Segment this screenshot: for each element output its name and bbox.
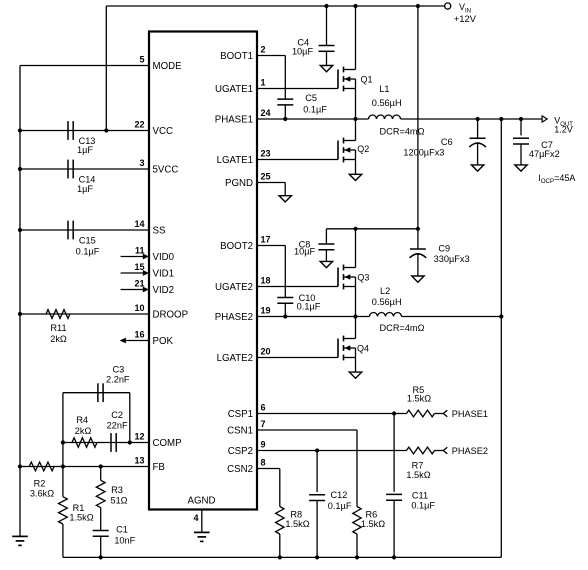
pin name SS: [153, 226, 166, 237]
node dot drain rail Q3: [353, 227, 357, 231]
controller IC U1 (24-pin PWM controller): [149, 32, 257, 510]
label C15 0.1uF: [76, 236, 100, 257]
svg-text:C15: C15: [79, 236, 96, 246]
pin name MODE: [153, 61, 183, 72]
pin number 3: [139, 158, 144, 168]
svg-text:R8: R8: [290, 510, 302, 520]
wire from top rail down to VCC row: [105, 6, 107, 131]
pin name VID0: [153, 252, 175, 263]
wire C12 branch: [316, 451, 318, 493]
svg-text:0.1µF: 0.1µF: [297, 301, 321, 311]
svg-text:2: 2: [261, 45, 266, 55]
wire CSN2 row to R8: [257, 469, 280, 507]
svg-text:LGATE1: LGATE1: [217, 155, 253, 166]
svg-text:PHASE2: PHASE2: [452, 446, 488, 456]
label C13 1uF: [77, 136, 95, 155]
capacitor C8: [318, 229, 334, 262]
svg-text:LGATE2: LGATE2: [217, 353, 253, 364]
wire 5VCC row: [20, 168, 149, 170]
wire C11 to bottom rail: [393, 500, 395, 557]
svg-text:23: 23: [261, 149, 271, 159]
ground C9: [412, 276, 424, 282]
resistor R1: [59, 497, 68, 524]
svg-text:0.1µF: 0.1µF: [303, 105, 327, 115]
svg-text:1.2V: 1.2V: [554, 125, 573, 135]
pin number 16: [134, 330, 144, 340]
svg-text:BOOT1: BOOT1: [220, 51, 253, 62]
resistor R11: [46, 310, 70, 319]
label C11 0.1uF: [411, 491, 435, 511]
svg-text:VID2: VID2: [153, 285, 175, 296]
pin number 9: [261, 440, 266, 450]
svg-text:CSN1: CSN1: [227, 426, 253, 437]
inductor L1: [369, 115, 401, 119]
svg-text:IOCP=45A: IOCP=45A: [538, 173, 575, 185]
svg-text:C9: C9: [438, 243, 450, 253]
pin number 14: [134, 219, 144, 229]
wire AGND pin 4: [201, 510, 203, 533]
node dot left rail DROOP: [18, 312, 22, 316]
pin name CSN1: [227, 426, 253, 437]
wire C5 to PHASE1: [284, 105, 286, 119]
node dot left rail FB: [18, 464, 22, 468]
wire VID1 input arrow: [121, 270, 149, 276]
ground C8: [320, 261, 332, 267]
wire R7 to PHASE2 tag: [435, 450, 444, 452]
svg-text:DROOP: DROOP: [153, 310, 189, 321]
svg-text:PHASE1: PHASE1: [215, 115, 253, 126]
wire R1 to bottom rail: [62, 524, 64, 557]
svg-text:20: 20: [261, 347, 271, 357]
node dot R6 bottom rail: [355, 555, 359, 559]
svg-text:0.56µH: 0.56µH: [372, 297, 402, 307]
wire R5 to PHASE1 tag: [435, 413, 444, 415]
pin number 13: [134, 456, 144, 466]
label R8 1.5kOhm: [285, 510, 309, 530]
svg-text:1.5kΩ: 1.5kΩ: [361, 519, 385, 529]
svg-text:COMP: COMP: [153, 438, 182, 449]
svg-text:C11: C11: [412, 491, 428, 501]
node dot drain rail C9: [416, 227, 420, 231]
svg-text:PGND: PGND: [225, 178, 253, 189]
pin number 25: [261, 172, 271, 182]
svg-text:22nF: 22nF: [107, 420, 128, 430]
label R7 1.5kOhm: [406, 460, 430, 480]
svg-text:13: 13: [134, 456, 144, 466]
pin number 12: [134, 432, 144, 442]
inductor L2: [370, 313, 402, 317]
svg-text:0.1µF: 0.1µF: [328, 501, 352, 511]
svg-text:PHASE2: PHASE2: [215, 312, 253, 323]
svg-text:2kΩ: 2kΩ: [75, 426, 92, 436]
label C6 1200uFx3: [403, 137, 452, 158]
wire COMP row: [63, 442, 149, 444]
resistor R3: [96, 480, 105, 507]
svg-text:1.5kΩ: 1.5kΩ: [69, 512, 93, 522]
pin name CSP1: [228, 409, 253, 420]
svg-text:9: 9: [261, 440, 266, 450]
wire VOUT right rail vertical: [500, 119, 502, 557]
label PHASE1 net: [452, 409, 488, 419]
wire DROOP row: [20, 313, 149, 315]
svg-text:18: 18: [261, 276, 271, 286]
node dot top rail / 12V feed to phase 2: [416, 4, 420, 8]
node dot top rail / C4: [324, 4, 328, 8]
capacitor C1: [93, 531, 109, 537]
svg-text:17: 17: [261, 235, 271, 245]
node dot C10 PHASE2: [283, 314, 287, 318]
label C7 47uFx2: [529, 140, 560, 159]
node dot CSP2 C12: [315, 448, 319, 452]
svg-text:R1: R1: [73, 503, 85, 513]
svg-text:L1: L1: [379, 84, 389, 94]
svg-text:AGND: AGND: [188, 496, 216, 507]
pin name CSN2: [227, 464, 253, 475]
label L1 0.56uH: [372, 84, 402, 108]
pin number 18: [261, 276, 271, 286]
node dot C5 PHASE1: [283, 117, 287, 121]
svg-text:R2: R2: [34, 479, 46, 489]
wire LGATE2 to Q4 gate: [257, 357, 338, 359]
pin number 1: [261, 78, 266, 88]
pin name LGATE2: [217, 353, 253, 364]
svg-text:C6: C6: [441, 137, 453, 147]
svg-text:UGATE2: UGATE2: [215, 282, 253, 293]
capacitor C6 output bulk: [469, 119, 486, 165]
wire FB to R3: [100, 467, 102, 481]
node dot L2 VOUT rail: [499, 314, 503, 318]
wire C3 feedback loop: [63, 393, 130, 443]
pin name 5VCC: [153, 165, 179, 176]
svg-text:25: 25: [261, 172, 271, 182]
capacitor C10: [277, 298, 293, 304]
label R6 1.5kOhm: [361, 510, 385, 530]
transistor Q2: [338, 119, 356, 174]
pin number 19: [261, 306, 271, 316]
pin name CSP2: [228, 446, 253, 457]
svg-text:3: 3: [139, 158, 144, 168]
node dot CSP1 C11: [392, 411, 396, 415]
svg-text:R6: R6: [366, 510, 378, 520]
svg-text:BOOT2: BOOT2: [220, 241, 253, 252]
wire CSP1 row: [257, 413, 407, 415]
capacitor C4: [319, 6, 335, 66]
node dot R8 bottom rail: [278, 555, 282, 559]
wire CSP2 row: [257, 450, 407, 452]
node dot VOUT rail top: [499, 117, 503, 121]
wire PHASE2 row: [257, 316, 370, 318]
resistor R4: [72, 438, 97, 448]
terminal VOUT arrow: [542, 116, 547, 122]
wire bottom rail: [63, 556, 501, 558]
wire phase2 drain rail: [326, 228, 418, 230]
svg-text:MODE: MODE: [153, 61, 183, 72]
svg-text:8: 8: [261, 458, 266, 468]
ground AGND: [194, 532, 210, 541]
label R1 1.5kOhm: [69, 503, 93, 523]
svg-text:1µF: 1µF: [77, 145, 93, 155]
resistor R7: [407, 447, 435, 454]
svg-text:1.5kΩ: 1.5kΩ: [406, 470, 430, 480]
node dot VCC 12V feed: [104, 128, 108, 132]
wire C11 branch: [393, 414, 395, 492]
pin number 20: [261, 347, 271, 357]
wire PGND to ground: [257, 183, 285, 196]
capacitor C11: [386, 494, 402, 500]
svg-text:3.6kΩ: 3.6kΩ: [30, 488, 54, 498]
pin number 23: [261, 149, 271, 159]
capacitor C3: [98, 383, 103, 402]
label Q4: [357, 344, 369, 354]
pin number 15: [134, 262, 144, 272]
svg-text:10nF: 10nF: [114, 536, 135, 546]
resistor R6: [353, 507, 361, 534]
svg-text:14: 14: [134, 219, 144, 229]
ground C7: [515, 165, 527, 171]
wire FB to R1: [62, 467, 64, 497]
svg-text:Q3: Q3: [357, 273, 369, 283]
svg-text:2.2nF: 2.2nF: [106, 374, 130, 384]
ground left rail: [12, 536, 28, 545]
svg-text:C12: C12: [330, 490, 347, 500]
capacitor C12: [309, 495, 325, 501]
svg-text:Q4: Q4: [357, 344, 369, 354]
svg-text:Q2: Q2: [357, 144, 369, 154]
label C14 1uF: [77, 175, 95, 194]
pin number 5: [139, 55, 144, 65]
ground Q4 source: [349, 372, 361, 378]
ground C4: [320, 66, 332, 72]
svg-text:1.5kΩ: 1.5kΩ: [407, 394, 431, 404]
node dot COMP right: [128, 440, 132, 444]
pin name PGND: [225, 178, 253, 189]
svg-text:UGATE1: UGATE1: [215, 84, 253, 95]
node dot left rail SS: [18, 228, 22, 232]
label C1 10nF: [114, 525, 135, 546]
label R2 3.6kOhm: [30, 479, 54, 499]
wire COMP node to FB row: [62, 443, 64, 467]
label R5 1.5kOhm: [407, 385, 431, 404]
wire POK output arrow: [120, 338, 149, 344]
pin name DROOP: [153, 310, 189, 321]
svg-text:VID1: VID1: [153, 269, 175, 280]
wire CSN1 row to R6: [257, 430, 357, 507]
terminal VIN circle: [445, 3, 451, 9]
pin number 2: [261, 45, 266, 55]
capacitor C2: [111, 433, 116, 452]
svg-text:0.1µF: 0.1µF: [76, 246, 100, 256]
label VIN +12V: [454, 2, 477, 24]
label R11 2kOhm: [50, 323, 67, 344]
wire L2 to VOUT rail: [402, 316, 502, 318]
svg-text:SS: SS: [153, 226, 166, 237]
pin name AGND: [188, 496, 216, 507]
wire PHASE1 row: [257, 118, 369, 120]
svg-text:10µF: 10µF: [292, 47, 314, 57]
wire BOOT1 to C5 branch: [257, 56, 285, 100]
wire UGATE1 to Q1 gate: [257, 88, 338, 90]
label R3 51Ohm: [110, 485, 127, 505]
label C2 22nF: [107, 410, 128, 430]
wire 12V feed down to phase2 drain rail: [417, 6, 419, 229]
capacitor C15: [68, 221, 73, 240]
label L1 DCR: [380, 126, 425, 136]
svg-text:0.1µF: 0.1µF: [411, 500, 435, 510]
label L2 DCR: [380, 323, 425, 333]
transistor Q1: [338, 6, 356, 119]
label C8 10uF: [294, 240, 316, 257]
svg-text:CSP2: CSP2: [228, 446, 253, 457]
label Q1: [360, 75, 372, 85]
label L2 0.56uH: [372, 286, 402, 307]
label PHASE2 net: [452, 446, 488, 456]
pin number 4: [193, 513, 198, 523]
pin name POK: [153, 336, 174, 347]
node dot top rail / Q1 drain: [353, 4, 357, 8]
label C9 330uFx3: [434, 243, 470, 264]
node dot PHASE1 Q1 source: [353, 117, 357, 121]
node dot PHASE2 Q3 source: [353, 314, 357, 318]
wire VID0 input arrow: [121, 254, 149, 260]
svg-text:DCR=4mΩ: DCR=4mΩ: [380, 323, 425, 333]
wire L1 to VOUT: [401, 118, 543, 120]
wire MODE to left rail: [20, 65, 149, 67]
pin name UGATE2: [215, 282, 253, 293]
wire VID2 input arrow: [121, 287, 149, 293]
wire VCC row: [20, 130, 149, 132]
label R4 2kOhm: [75, 415, 92, 436]
wire C10 to PHASE2: [284, 303, 286, 316]
svg-text:19: 19: [261, 306, 271, 316]
pin name VCC: [153, 126, 173, 137]
transistor Q3: [338, 229, 356, 317]
svg-text:VID0: VID0: [153, 252, 175, 263]
pin number 17: [261, 235, 271, 245]
capacitor C9: [410, 229, 427, 276]
label C3 2.2nF: [106, 365, 130, 385]
terminal PHASE2 tag: [443, 447, 447, 454]
svg-text:+12V: +12V: [454, 13, 477, 24]
node dot C12 bottom rail: [315, 555, 319, 559]
svg-text:5VCC: 5VCC: [153, 165, 179, 176]
transistor Q4: [338, 317, 356, 373]
capacitor C13: [68, 121, 73, 140]
terminal PHASE1 tag: [443, 410, 447, 417]
pin name LGATE1: [217, 155, 253, 166]
svg-text:0.56µH: 0.56µH: [372, 98, 402, 108]
svg-text:Q1: Q1: [360, 75, 372, 85]
pin number 11: [135, 246, 145, 256]
wire +12V top rail: [106, 5, 444, 7]
wire C12 to bottom rail: [316, 501, 318, 558]
svg-text:1µF: 1µF: [77, 184, 93, 194]
pin name VID1: [153, 269, 175, 280]
svg-text:POK: POK: [153, 336, 174, 347]
wire C1 to bottom rail: [100, 536, 102, 557]
node dot C7 VOUT rail: [519, 117, 523, 121]
svg-text:10µF: 10µF: [294, 247, 316, 257]
node dot left rail 5VCC: [18, 167, 22, 171]
wire R8 to bottom rail: [279, 534, 281, 557]
svg-text:R3: R3: [111, 485, 123, 495]
svg-text:C1: C1: [116, 525, 128, 535]
node dot COMP left: [61, 440, 65, 444]
wire SS row: [20, 229, 149, 231]
svg-text:2kΩ: 2kΩ: [50, 334, 67, 344]
node dot C11 bottom rail: [392, 555, 396, 559]
svg-text:12: 12: [134, 432, 144, 442]
label VOUT 1.2V: [554, 116, 573, 135]
capacitor C14: [68, 160, 73, 179]
svg-text:PHASE1: PHASE1: [452, 409, 488, 419]
svg-text:R11: R11: [50, 323, 66, 333]
pin name FB: [153, 462, 165, 473]
svg-text:R7: R7: [412, 460, 424, 470]
svg-text:FB: FB: [153, 462, 165, 473]
label C12 0.1uF: [328, 490, 352, 511]
ground Q2 source: [349, 174, 361, 180]
ground PGND: [279, 196, 291, 202]
label C5 0.1uF: [303, 93, 327, 115]
svg-text:4: 4: [193, 513, 198, 523]
ground C6: [471, 165, 483, 171]
capacitor C7: [513, 119, 529, 165]
wire R3 to C1: [100, 508, 102, 531]
wire left ground rail vertical: [19, 66, 21, 537]
svg-text:C5: C5: [305, 93, 317, 103]
wire LGATE1 to Q2 gate: [257, 159, 338, 161]
pin name PHASE1: [215, 115, 253, 126]
svg-text:L2: L2: [380, 286, 390, 296]
pin name PHASE2: [215, 312, 253, 323]
node dot C1 bottom rail: [99, 555, 103, 559]
pin number 21: [134, 279, 144, 289]
pin number 22: [134, 120, 144, 130]
label IOCP=45A: [538, 173, 575, 185]
pin name BOOT1: [220, 51, 253, 62]
pin number 7: [261, 419, 266, 429]
svg-text:10: 10: [134, 303, 144, 313]
label Q3: [357, 273, 369, 283]
label Q2: [357, 144, 369, 154]
svg-text:C2: C2: [111, 410, 123, 420]
node dot FB R3: [99, 464, 103, 468]
svg-text:1: 1: [261, 78, 266, 88]
wire FB row: [20, 466, 149, 468]
svg-text:47µFx2: 47µFx2: [529, 149, 560, 159]
label C4 10uF: [292, 38, 314, 57]
svg-text:51Ω: 51Ω: [110, 495, 127, 505]
svg-text:1200µFx3: 1200µFx3: [403, 148, 444, 158]
svg-text:R4: R4: [76, 415, 88, 425]
svg-text:C3: C3: [113, 365, 125, 375]
node dot left rail VCC: [18, 128, 22, 132]
svg-text:16: 16: [134, 330, 144, 340]
svg-text:CSP1: CSP1: [228, 409, 253, 420]
pin name COMP: [153, 438, 182, 449]
svg-text:7: 7: [261, 419, 266, 429]
pin name UGATE1: [215, 84, 253, 95]
wire UGATE2 to Q3 gate: [257, 286, 338, 288]
pin number 10: [134, 303, 144, 313]
svg-text:22: 22: [134, 120, 144, 130]
svg-text:330µFx3: 330µFx3: [434, 254, 470, 264]
svg-text:VCC: VCC: [153, 126, 173, 137]
node dot FB R1: [61, 464, 65, 468]
wire R6 to bottom rail: [356, 534, 358, 557]
pin name VID2: [153, 285, 175, 296]
wire BOOT2 to C10 branch: [257, 246, 285, 298]
